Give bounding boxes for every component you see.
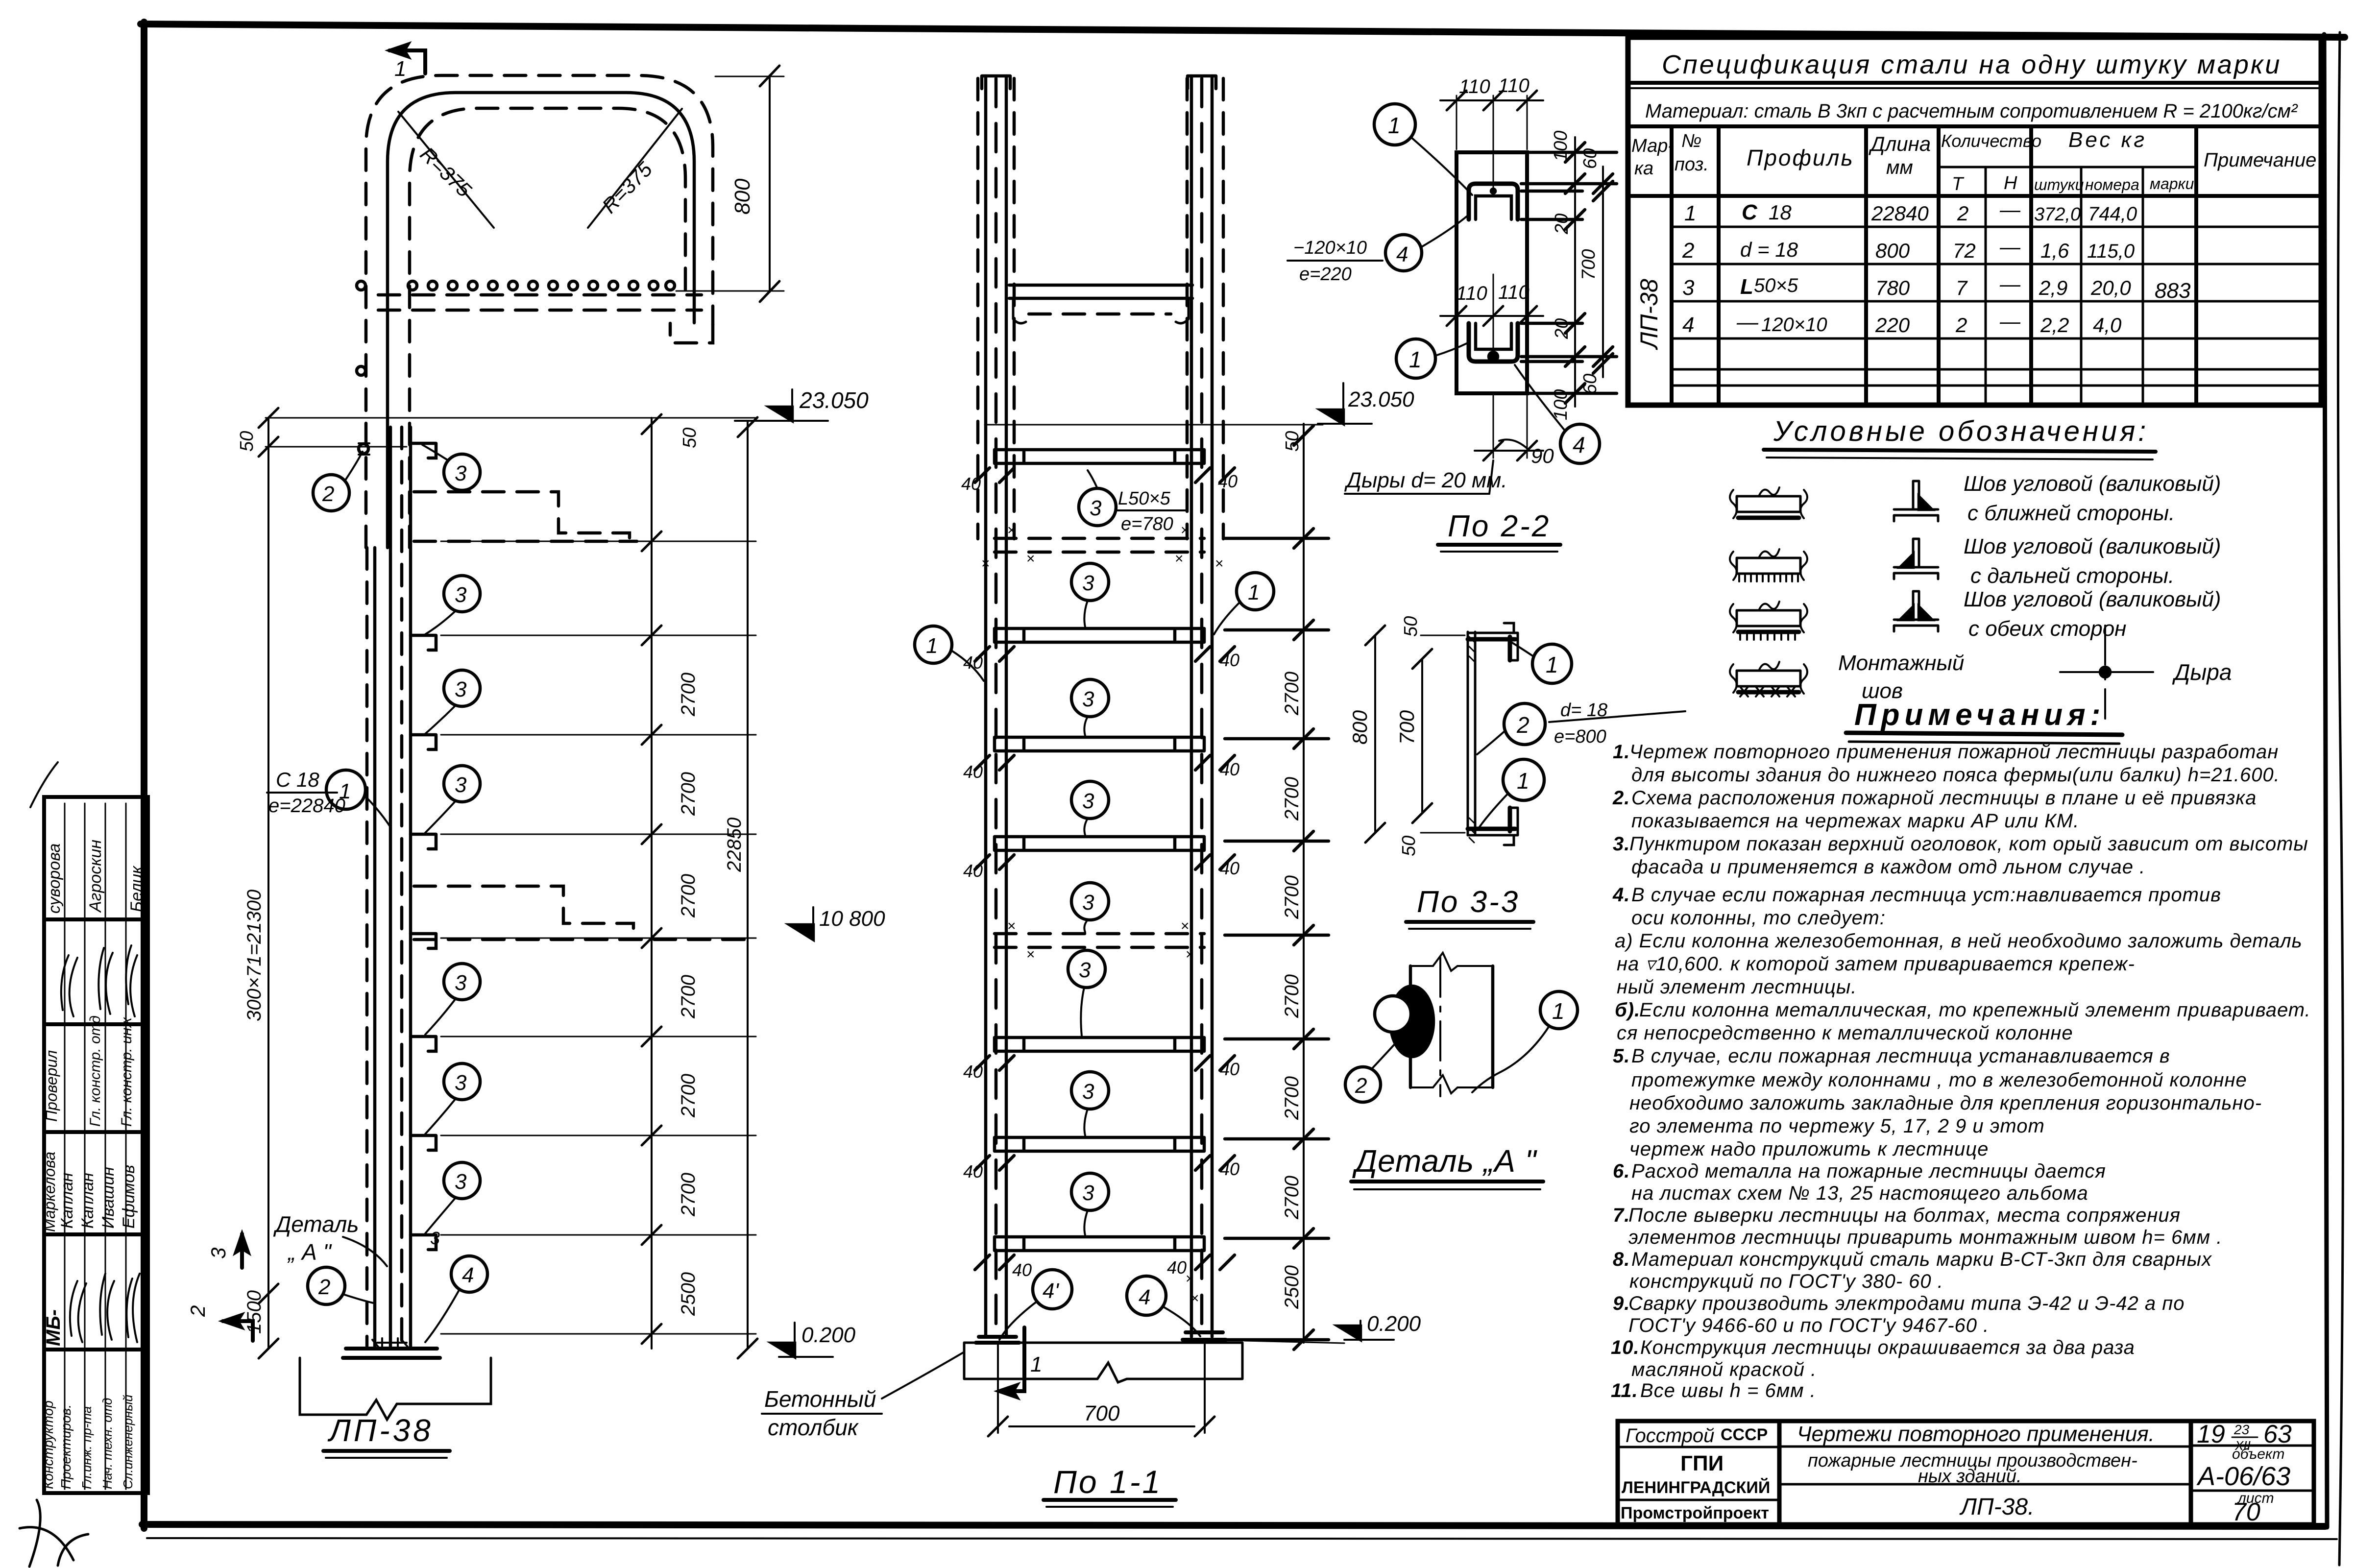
svg-text:1: 1	[1546, 652, 1558, 677]
svg-text:4: 4	[1396, 242, 1408, 266]
svg-text:Дыры d= 20 мм.: Дыры d= 20 мм.	[1344, 468, 1507, 492]
svg-text:1: 1	[1030, 1352, 1042, 1376]
svg-text:×: ×	[1026, 551, 1035, 567]
svg-text:2: 2	[1516, 712, 1530, 738]
svg-text:1: 1	[339, 779, 351, 803]
svg-text:суворова: суворова	[45, 844, 64, 914]
svg-text:—: —	[1999, 272, 2021, 295]
svg-text:9.: 9.	[1613, 1293, 1630, 1314]
section По 3-3	[1348, 616, 1685, 929]
svg-text:3: 3	[1682, 276, 1695, 300]
anchor bolts	[997, 1343, 999, 1433]
bottom break line	[1410, 1075, 1493, 1093]
svg-text:50×5: 50×5	[1754, 275, 1798, 296]
svg-text:3: 3	[1082, 789, 1094, 813]
svg-text:Бетонный: Бетонный	[764, 1386, 876, 1412]
top channel	[1468, 637, 1515, 660]
crease above signature table	[30, 762, 58, 807]
mid dim 110 110	[1456, 274, 1457, 323]
svg-text:показывается на чертежах ма: показывается на чертежах марки АР или КМ…	[1631, 810, 2079, 832]
rail top caps	[982, 76, 1010, 89]
svg-text:В случае если пожарная лест: В случае если пожарная лестница уст:навл…	[1631, 884, 2221, 906]
svg-text:2: 2	[1957, 202, 1968, 225]
svg-text:2: 2	[186, 1305, 209, 1317]
svg-text:120×10: 120×10	[1761, 314, 1827, 336]
svg-text:Шов угловой (валиковый): Шов угловой (валиковый)	[1964, 472, 2221, 496]
svg-text:3: 3	[1082, 1181, 1094, 1205]
svg-text:L50×5: L50×5	[1118, 488, 1171, 509]
hood outer bottom bracket	[670, 323, 713, 343]
hood middle solid hoop	[388, 93, 694, 548]
section mark 1 bottom	[998, 1327, 1024, 1391]
svg-text:Конструкция лестницы окрашив: Конструкция лестницы окрашивается за два…	[1640, 1337, 2135, 1358]
svg-text:700: 700	[1395, 710, 1418, 745]
svg-text:а) Если колонна железобетонна: а) Если колонна железобетонная, в ней не…	[1615, 930, 2303, 952]
svg-text:2700: 2700	[678, 874, 699, 918]
svg-text:№: №	[1681, 131, 1701, 151]
circle 1 lower	[1396, 339, 1435, 378]
column member edges	[1409, 966, 1412, 1087]
svg-text:Агроскин: Агроскин	[86, 840, 105, 913]
svg-text:3: 3	[455, 461, 467, 485]
svg-text:Сварку производить электрода: Сварку производить электродами типа Э-42…	[1628, 1293, 2185, 1314]
left dim line 300x71=21300	[267, 418, 269, 1349]
svg-text:e=800: e=800	[1554, 726, 1606, 747]
svg-text:2700: 2700	[1281, 777, 1303, 821]
right dim line A	[1574, 137, 1576, 407]
svg-text:220: 220	[1875, 314, 1910, 337]
svg-text:Ивашин: Ивашин	[99, 1167, 118, 1229]
hood inner dashed outline	[410, 108, 685, 548]
svg-text:2500: 2500	[1281, 1265, 1303, 1309]
svg-text:2700: 2700	[678, 772, 699, 816]
right rail solid lines	[1190, 76, 1193, 1337]
svg-text:штуки: штуки	[2034, 176, 2084, 193]
legend Условные обозначения	[1730, 415, 2232, 719]
svg-text:Шов угловой (валиковый): Шов угловой (валиковый)	[1964, 587, 2221, 611]
svg-text:1: 1	[394, 57, 406, 81]
label circle 2 (bottom)	[308, 1267, 345, 1304]
stringer bolts in hood	[357, 281, 365, 290]
svg-text:L: L	[1740, 275, 1753, 299]
svg-text:чертеж надо приложить к: чертеж надо приложить к лестнице	[1629, 1138, 1989, 1160]
foundation pier	[300, 1358, 491, 1420]
svg-text:—: —	[1736, 310, 1759, 334]
svg-text:23.050: 23.050	[1348, 387, 1414, 411]
svg-text:МБ-: МБ-	[43, 1309, 64, 1346]
dim 700	[1421, 659, 1423, 813]
svg-text:90: 90	[1531, 444, 1554, 467]
circle 1 right rail	[1237, 573, 1274, 610]
svg-text:72: 72	[1953, 239, 1976, 262]
right extension lines	[1521, 152, 1617, 393]
svg-text:Н: Н	[2004, 173, 2017, 193]
svg-text:100: 100	[1551, 131, 1571, 162]
svg-text:2,2: 2,2	[2040, 314, 2069, 337]
svg-text:1: 1	[1388, 113, 1401, 138]
dim line 2700s	[651, 418, 653, 1349]
svg-text:элементов лестницы приварить: элементов лестницы приварить монтажным ш…	[1628, 1227, 2222, 1248]
svg-text:фасада и применяется в каж: фасада и применяется в каждом отд льном …	[1631, 856, 2145, 878]
centerline	[1439, 958, 1441, 1096]
svg-text:А-06/63: А-06/63	[2196, 1462, 2290, 1491]
signature table (rotated, left margin)	[41, 797, 148, 1493]
svg-text:Каплан: Каплан	[78, 1173, 97, 1229]
svg-text:20: 20	[1552, 214, 1572, 235]
svg-text:4: 4	[462, 1263, 474, 1287]
radius leader right R=375	[588, 109, 682, 228]
svg-text:1: 1	[1517, 768, 1530, 794]
svg-text:372,0: 372,0	[2034, 204, 2081, 225]
svg-text:20: 20	[1552, 318, 1572, 339]
notes heading Примечания	[1846, 698, 2122, 744]
svg-text:ных зданий.: ных зданий.	[1918, 1466, 2022, 1487]
extension lines to right dims	[441, 541, 756, 542]
data row rules	[1672, 226, 2321, 228]
stringer outer dashed line	[365, 548, 369, 1347]
rung end circles row	[408, 281, 417, 290]
svg-text:СССР: СССР	[1721, 1425, 1768, 1444]
svg-text:необходимо заложить закладные: необходимо заложить закладные для крепле…	[1629, 1092, 2262, 1114]
svg-text:3: 3	[455, 1071, 467, 1095]
bolt on stringer	[359, 444, 368, 454]
svg-text:3: 3	[207, 1248, 230, 1259]
svg-text:4,0: 4,0	[2093, 314, 2122, 337]
svg-text:Гл.инж. пр-та: Гл.инж. пр-та	[79, 1406, 94, 1489]
svg-text:3: 3	[1082, 1080, 1094, 1104]
svg-text:60: 60	[1580, 148, 1601, 169]
lower parapet dashed outline	[414, 886, 633, 938]
svg-text:1: 1	[1684, 201, 1696, 225]
svg-text:d = 18: d = 18	[1740, 238, 1798, 261]
svg-text:18: 18	[1769, 201, 1792, 224]
svg-text:2: 2	[318, 1275, 330, 1299]
svg-text:Примечание: Примечание	[2204, 149, 2316, 171]
svg-text:номера: номера	[2085, 176, 2139, 193]
svg-text:3: 3	[455, 677, 467, 701]
svg-text:Условные обозначения:: Условные обозначения:	[1773, 415, 2149, 447]
hole symbol	[2060, 671, 2153, 673]
svg-text:ГПИ: ГПИ	[1680, 1451, 1724, 1475]
svg-text:с обеих сторон: с обеих сторон	[1968, 617, 2126, 641]
svg-text:1,6: 1,6	[2040, 239, 2069, 262]
svg-text:50: 50	[680, 428, 700, 448]
svg-text:10 800: 10 800	[819, 907, 885, 931]
svg-text:Гл. констр. отд: Гл. констр. отд	[87, 1015, 103, 1127]
label circle 4 (bottom)	[451, 1256, 487, 1292]
svg-text:объект: объект	[2232, 1446, 2284, 1462]
svg-text:ный элемент лестницы.: ный элемент лестницы.	[1617, 976, 1857, 998]
extension lines to dim	[1225, 538, 1329, 1340]
svg-text:Все швы h = 6мм .: Все швы h = 6мм .	[1640, 1380, 1816, 1401]
svg-text:По 3-3: По 3-3	[1417, 885, 1520, 919]
right border	[2324, 34, 2327, 1527]
bottom dim 90	[1493, 396, 1494, 458]
svg-text:115,0: 115,0	[2087, 241, 2135, 262]
anchor ticks on plate	[377, 1338, 407, 1348]
svg-text:1: 1	[1248, 580, 1260, 604]
svg-text:3: 3	[1079, 958, 1091, 982]
svg-text:ЛЕНИНГРАДСКИЙ: ЛЕНИНГРАДСКИЙ	[1622, 1478, 1770, 1497]
svg-text:Схема расположения пожарной: Схема расположения пожарной лестницы в п…	[1631, 787, 2257, 809]
left elevation ЛП-38	[186, 387, 885, 1458]
circle 2 label	[1345, 1067, 1381, 1102]
signatures block 2	[126, 945, 137, 1016]
label circle 2 (top)	[313, 475, 349, 511]
left cell rules	[1618, 1446, 1779, 1448]
svg-text:5.: 5.	[1613, 1045, 1630, 1067]
svg-text:После выверки лестницы на: После выверки лестницы на болтах, места …	[1628, 1205, 2181, 1226]
notes text	[1611, 741, 2311, 1401]
middle cell rules	[1779, 1446, 2191, 1448]
stringer solid lines	[373, 548, 377, 1349]
hood (top view of ladder guard, top-left)	[357, 44, 784, 548]
hood cross member	[1009, 284, 1192, 287]
svg-text:700: 700	[1578, 249, 1599, 280]
svg-text:780: 780	[1875, 276, 1910, 299]
svg-text:на листах схем № 13, 25: на листах схем № 13, 25 настоящего альбо…	[1631, 1182, 2088, 1204]
bottom-left crease swirl	[20, 1500, 88, 1567]
tick crosses at rung ends	[975, 468, 1235, 1270]
svg-text:Вес кг: Вес кг	[2068, 128, 2147, 152]
svg-text:8.: 8.	[1613, 1249, 1630, 1270]
23.050 level mark	[1342, 383, 1344, 424]
svg-text:Шов угловой (валиковый): Шов угловой (валиковый)	[1964, 534, 2221, 558]
front elevation По 1-1	[762, 76, 1421, 1507]
svg-text:e=220: e=220	[1299, 264, 1352, 285]
lower channel	[1469, 323, 1518, 362]
svg-text:Длина: Длина	[1869, 132, 1931, 155]
svg-text:Деталь: Деталь	[273, 1211, 359, 1237]
svg-text:для высоты здания до нижнег: для высоты здания до нижнего пояса фермы…	[1631, 764, 2280, 786]
T weld symbol row2	[1894, 539, 1938, 579]
svg-text:По 1-1: По 1-1	[1053, 1464, 1162, 1500]
left border	[141, 22, 147, 1528]
svg-text:2700: 2700	[1281, 672, 1303, 716]
svg-text:10.: 10.	[1611, 1337, 1640, 1358]
svg-text:Чертежи повторного применени: Чертежи повторного применения.	[1797, 1422, 2155, 1446]
svg-text:конструкций по ГОСТ'у 380- 6: конструкций по ГОСТ'у 380- 60 .	[1629, 1271, 1943, 1292]
svg-text:×: ×	[1215, 555, 1224, 572]
T weld symbol row3	[1894, 591, 1938, 631]
svg-text:4: 4	[1139, 1285, 1150, 1309]
section По 2-2	[1287, 75, 1617, 552]
svg-text:ка: ка	[1634, 158, 1653, 179]
circle 1 upper	[1374, 104, 1415, 145]
svg-text:Расход металла на пожарные: Расход металла на пожарные лестницы дает…	[1631, 1160, 2106, 1182]
svg-text:мм: мм	[1886, 157, 1913, 178]
svg-text:×: ×	[1026, 946, 1035, 963]
svg-text:×: ×	[981, 555, 990, 572]
section mark 3 (left of base)	[240, 1234, 244, 1268]
svg-text:883: 883	[2155, 279, 2191, 303]
wall bracket steps	[411, 443, 436, 458]
circle 3 with L50x5 label (top bay)	[1079, 488, 1116, 526]
column dividers (blocks)	[44, 917, 148, 921]
svg-text:3: 3	[1090, 496, 1102, 520]
svg-text:Материал: сталь В 3кп с расчет: Материал: сталь В 3кп с расчетным сопрот…	[1645, 100, 2298, 122]
circle 1 top	[1532, 644, 1572, 683]
top break line	[1410, 953, 1493, 971]
svg-text:Монтажный: Монтажный	[1838, 651, 1964, 675]
svg-text:Ефимов: Ефимов	[120, 1165, 138, 1229]
svg-text:2700: 2700	[678, 975, 699, 1019]
hood hidden dashed lines	[976, 78, 980, 539]
svg-text:2700: 2700	[678, 1173, 699, 1217]
top dim 110 110	[1456, 96, 1457, 149]
section mark 2 (left of base)	[223, 1321, 253, 1341]
svg-text:Госстрой: Госстрой	[1626, 1425, 1714, 1447]
svg-text:Деталь „А ": Деталь „А "	[1352, 1143, 1538, 1179]
svg-text:2700: 2700	[678, 1074, 699, 1118]
svg-text:40: 40	[1167, 1257, 1187, 1278]
svg-text:Проектиров.: Проектиров.	[58, 1404, 73, 1489]
svg-text:R=375: R=375	[416, 143, 476, 202]
40 offset labels	[961, 471, 1239, 1280]
svg-text:ЛП-38.: ЛП-38.	[1959, 1494, 2034, 1520]
svg-text:4.: 4.	[1612, 884, 1630, 906]
svg-text:0.200: 0.200	[801, 1323, 856, 1347]
svg-text:50: 50	[1399, 836, 1419, 856]
svg-text:×: ×	[1007, 522, 1016, 538]
svg-text:го элемента по чертежу: го элемента по чертежу 5, 17, 2 9 и этот	[1629, 1115, 2045, 1137]
svg-text:110: 110	[1459, 76, 1490, 97]
dim 800 extension lines	[715, 76, 784, 77]
top 50 line	[985, 424, 1323, 426]
svg-text:1: 1	[1552, 998, 1565, 1024]
svg-text:2: 2	[1682, 239, 1694, 263]
hood outer dashed outline	[366, 75, 713, 548]
circles 3 in bays	[1071, 563, 1109, 601]
dim 800 line	[769, 75, 771, 292]
row rule lines	[64, 803, 66, 1489]
svg-text:110: 110	[1498, 282, 1530, 303]
circle 4 lower	[1560, 424, 1600, 463]
bottom channel	[1468, 808, 1515, 831]
svg-text:4: 4	[1573, 432, 1585, 458]
svg-text:×: ×	[1186, 1271, 1194, 1287]
svg-text:0.200: 0.200	[1367, 1312, 1421, 1336]
svg-text:×: ×	[1186, 946, 1194, 963]
circle 1 label	[1540, 991, 1578, 1029]
Деталь А detail	[1345, 953, 1578, 1189]
svg-text:на ▿10,6: на ▿10,600. к которой затем привариваетс…	[1617, 953, 2135, 975]
svg-text:с ближней стороны.: с ближней стороны.	[1967, 501, 2175, 525]
svg-text:С 18: С 18	[276, 768, 319, 791]
svg-text:ЛП-38: ЛП-38	[1635, 279, 1663, 350]
bolt circle	[1375, 996, 1411, 1032]
header bottom rule	[1628, 194, 2321, 198]
rung bar double line	[1467, 632, 1469, 835]
svg-text:23.050: 23.050	[799, 387, 869, 413]
radius leader left R=375	[398, 112, 494, 228]
svg-text:2700: 2700	[678, 673, 699, 717]
x weld marks	[981, 522, 1224, 1306]
svg-text:С: С	[1742, 200, 1758, 224]
column rules	[1670, 126, 1674, 405]
svg-text:Чертеж повторного применения: Чертеж повторного применения пожарной ле…	[1629, 741, 2279, 763]
svg-text:2700: 2700	[1281, 974, 1303, 1018]
svg-text:„ А ": „ А "	[287, 1239, 333, 1265]
svg-text:×: ×	[1175, 551, 1184, 567]
svg-text:3: 3	[1082, 891, 1094, 915]
circle 1 bottom	[1503, 759, 1544, 800]
svg-text:масляной краской .: масляной краской .	[1631, 1359, 1817, 1380]
svg-text:Каплан: Каплан	[58, 1173, 76, 1229]
svg-text:50: 50	[237, 431, 257, 452]
right dim line B	[1602, 167, 1604, 377]
circle 4	[1127, 1276, 1166, 1315]
svg-text:2: 2	[1955, 314, 1967, 337]
circle 4'	[1033, 1270, 1072, 1309]
section mark 1 (top)	[389, 50, 425, 73]
hidden dashed bars (parapet levels)	[995, 538, 1204, 552]
svg-text:19: 19	[2197, 1420, 2225, 1448]
svg-text:3: 3	[455, 1170, 467, 1194]
svg-text:110: 110	[1498, 75, 1530, 96]
stringer inner dashed	[400, 427, 404, 1347]
weld symbol row2: bar with tick hatch	[1737, 558, 1800, 574]
top 50 dim lines	[266, 417, 756, 419]
svg-text:800: 800	[730, 178, 754, 215]
svg-text:Белик: Белик	[127, 865, 146, 912]
weld symbol row3: bar with thick line and ticks	[1737, 610, 1800, 626]
svg-text:63: 63	[2263, 1420, 2292, 1448]
svg-text:40: 40	[961, 474, 981, 494]
svg-text:оси колонны, то следует:: оси колонны, то следует:	[1631, 907, 1886, 929]
svg-text:Маркелова: Маркелова	[41, 1152, 58, 1232]
svg-text:−120×10: −120×10	[1293, 238, 1367, 258]
svg-text:В случае, если пожарная лестни: В случае, если пожарная лестница устанав…	[1631, 1045, 2170, 1067]
svg-text:ЛП-38: ЛП-38	[327, 1413, 434, 1448]
svg-text:столбик: столбик	[768, 1415, 859, 1440]
svg-text:×: ×	[1181, 918, 1190, 934]
bottom thin rule	[147, 1538, 2337, 1539]
svg-text:—: —	[1999, 198, 2021, 221]
svg-text:1: 1	[1409, 347, 1422, 372]
bottom border	[142, 1524, 2325, 1526]
title row rule (double)	[1628, 81, 2321, 85]
specification table	[1628, 37, 2321, 405]
svg-text:Нач. техн. отд: Нач. техн. отд	[100, 1398, 115, 1489]
signatures block 5	[126, 1274, 140, 1342]
svg-text:23: 23	[2234, 1422, 2250, 1437]
svg-text:7: 7	[1956, 276, 1968, 299]
upper parapet dashed outline	[414, 492, 630, 540]
svg-text:Профиль: Профиль	[1747, 145, 1854, 170]
weld symbol row1: bar with thick line	[1737, 496, 1800, 512]
svg-text:60: 60	[1580, 374, 1601, 394]
upper channel	[1469, 184, 1518, 219]
svg-text:Примечания:: Примечания:	[1854, 698, 2105, 732]
base plate	[346, 1347, 437, 1351]
svg-text:×: ×	[1181, 522, 1190, 538]
23.050 level mark	[791, 389, 793, 421]
svg-text:Проверил: Проверил	[43, 1050, 60, 1122]
right cell rules	[2191, 1445, 2314, 1447]
T weld symbol row1	[1894, 481, 1938, 521]
svg-text:3: 3	[1082, 571, 1094, 595]
circle 1 left rail	[915, 626, 952, 663]
right page crease	[2338, 32, 2343, 1565]
svg-text:Мар-: Мар-	[1631, 136, 1674, 156]
svg-text:22840: 22840	[1871, 202, 1929, 225]
title block frame	[1618, 1421, 2314, 1524]
svg-text:×: ×	[1190, 1290, 1199, 1306]
circle 2 with d=18 label	[1504, 703, 1545, 745]
svg-text:2.: 2.	[1612, 787, 1630, 809]
table frame	[44, 797, 148, 1493]
